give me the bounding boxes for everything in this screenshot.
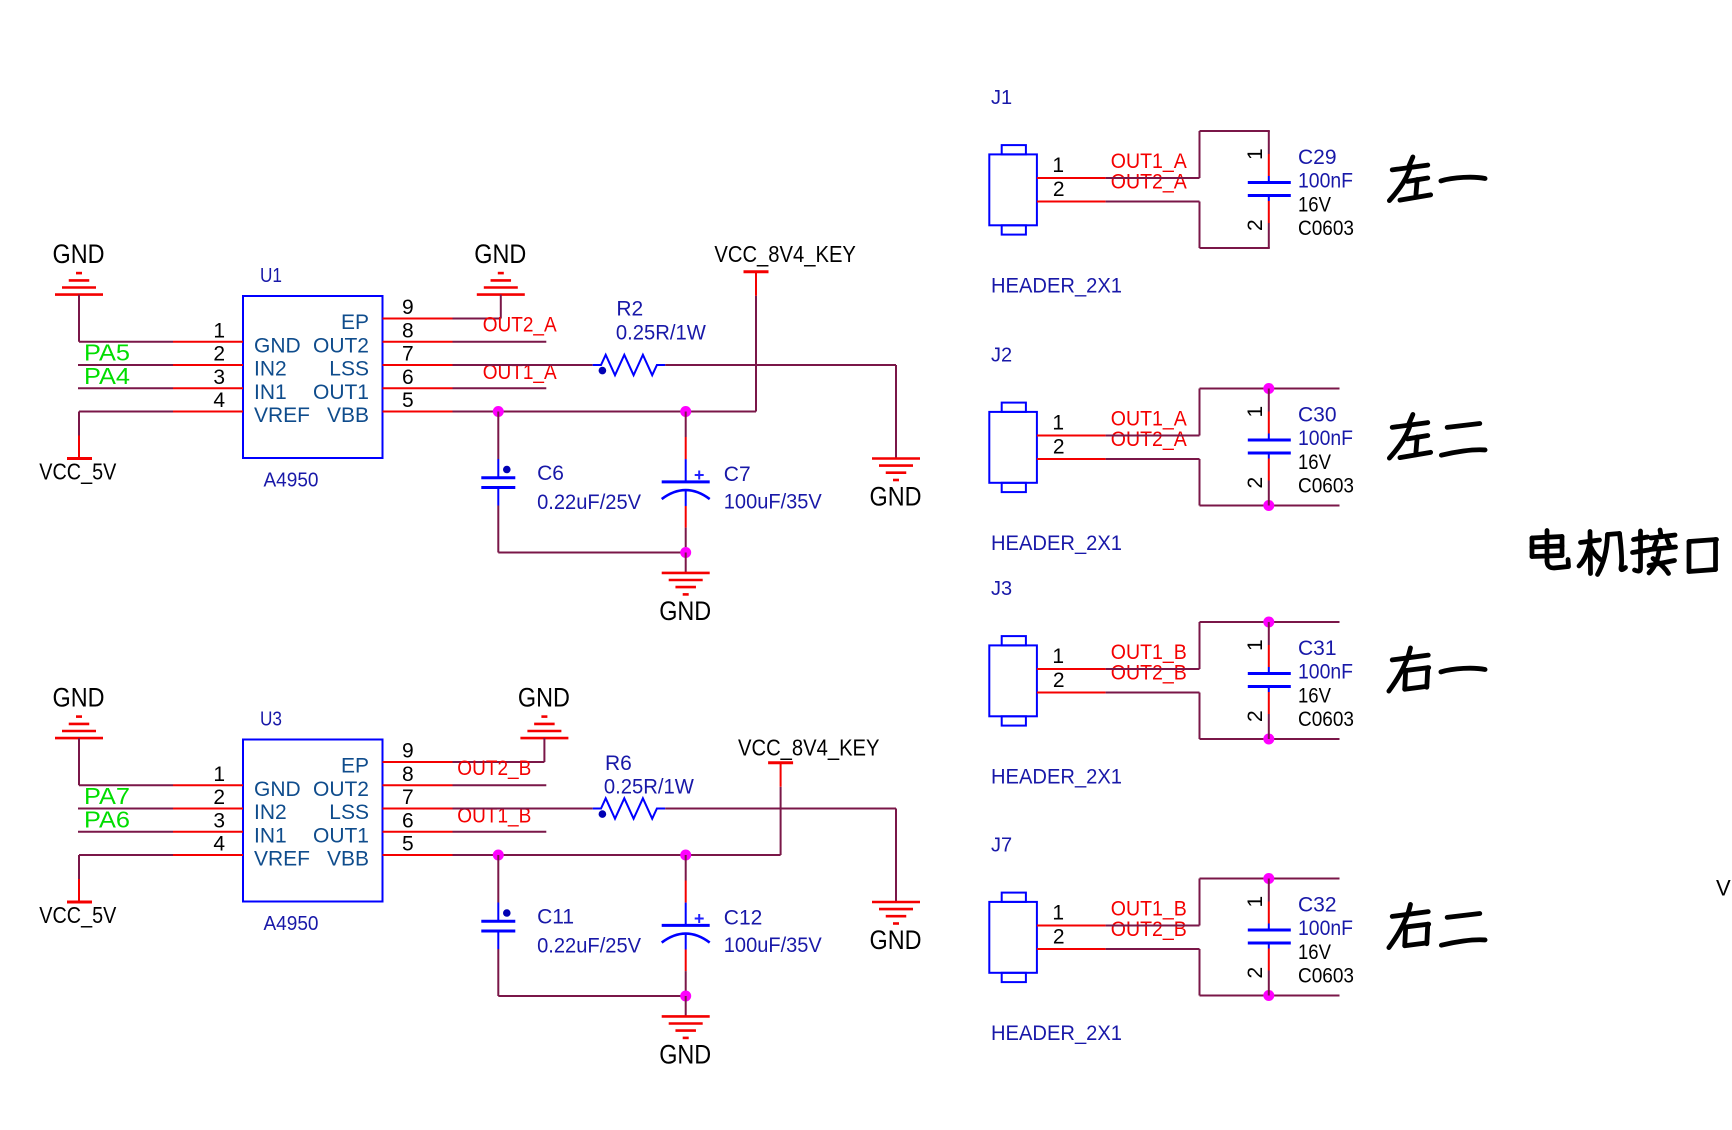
svg-text:2: 2 xyxy=(213,343,225,366)
svg-text:OUT1: OUT1 xyxy=(313,381,369,404)
svg-text:1: 1 xyxy=(1052,902,1064,925)
svg-text:C12: C12 xyxy=(724,907,763,930)
svg-text:4: 4 xyxy=(213,833,225,856)
svg-text:7: 7 xyxy=(402,786,414,809)
svg-text:PA4: PA4 xyxy=(84,363,130,389)
svg-text:A4950: A4950 xyxy=(264,470,319,492)
svg-text:VREF: VREF xyxy=(254,848,310,871)
svg-text:EP: EP xyxy=(341,755,369,778)
svg-text:OUT2_A: OUT2_A xyxy=(1111,170,1187,193)
svg-text:0.22uF/25V: 0.22uF/25V xyxy=(537,491,641,514)
svg-text:GND: GND xyxy=(870,925,922,955)
svg-text:GND: GND xyxy=(53,683,105,713)
svg-text:16V: 16V xyxy=(1298,941,1331,964)
svg-text:PA7: PA7 xyxy=(84,783,130,809)
svg-text:1: 1 xyxy=(1052,154,1064,177)
svg-text:4: 4 xyxy=(213,389,225,412)
svg-text:C0603: C0603 xyxy=(1298,217,1354,240)
svg-text:0.25R/1W: 0.25R/1W xyxy=(616,322,706,345)
svg-text:1: 1 xyxy=(1244,148,1267,160)
svg-text:PA6: PA6 xyxy=(84,806,130,832)
svg-text:GND: GND xyxy=(870,482,922,512)
svg-text:VBB: VBB xyxy=(327,848,369,871)
svg-text:IN2: IN2 xyxy=(254,801,287,824)
svg-text:R6: R6 xyxy=(605,752,632,775)
svg-text:C32: C32 xyxy=(1298,894,1337,917)
svg-text:LSS: LSS xyxy=(329,801,369,824)
svg-text:GND: GND xyxy=(53,239,105,269)
svg-text:OUT2_B: OUT2_B xyxy=(457,757,531,780)
svg-text:2: 2 xyxy=(1053,669,1065,692)
svg-text:HEADER_2X1: HEADER_2X1 xyxy=(991,532,1122,555)
svg-text:A4950: A4950 xyxy=(264,913,319,935)
svg-text:8: 8 xyxy=(402,319,414,342)
svg-text:U3: U3 xyxy=(260,709,282,731)
svg-text:100nF: 100nF xyxy=(1298,661,1353,684)
svg-text:5: 5 xyxy=(402,389,414,412)
svg-text:OUT2_A: OUT2_A xyxy=(1111,428,1187,451)
svg-text:GND: GND xyxy=(518,683,570,713)
svg-text:LSS: LSS xyxy=(329,358,369,381)
svg-text:1: 1 xyxy=(1052,412,1064,435)
svg-text:GND: GND xyxy=(254,334,301,357)
svg-text:1: 1 xyxy=(1244,639,1267,651)
svg-text:1: 1 xyxy=(213,319,225,342)
svg-text:J7: J7 xyxy=(991,835,1012,857)
svg-text:IN1: IN1 xyxy=(254,381,287,404)
svg-text:OUT2: OUT2 xyxy=(313,778,369,801)
svg-text:GND: GND xyxy=(474,239,526,269)
svg-text:OUT2: OUT2 xyxy=(313,334,369,357)
svg-text:16V: 16V xyxy=(1298,451,1331,474)
svg-text:100uF/35V: 100uF/35V xyxy=(724,934,822,957)
svg-text:C29: C29 xyxy=(1298,146,1337,169)
svg-text:C0603: C0603 xyxy=(1298,708,1354,731)
svg-text:HEADER_2X1: HEADER_2X1 xyxy=(991,766,1122,789)
svg-text:0.25R/1W: 0.25R/1W xyxy=(604,776,694,799)
svg-text:OUT2_A: OUT2_A xyxy=(483,314,557,337)
svg-text:J2: J2 xyxy=(991,345,1012,367)
svg-text:VREF: VREF xyxy=(254,404,310,427)
svg-text:9: 9 xyxy=(402,296,414,319)
svg-text:2: 2 xyxy=(1244,219,1267,231)
svg-text:GND: GND xyxy=(659,596,711,626)
svg-text:J1: J1 xyxy=(991,87,1012,109)
svg-text:C6: C6 xyxy=(537,462,564,485)
svg-text:OUT1: OUT1 xyxy=(313,824,369,847)
svg-text:100nF: 100nF xyxy=(1298,170,1353,193)
svg-text:6: 6 xyxy=(402,809,414,832)
svg-text:2: 2 xyxy=(1244,710,1267,722)
svg-text:VCC_8V4_KEY: VCC_8V4_KEY xyxy=(714,241,856,267)
svg-text:100nF: 100nF xyxy=(1298,427,1353,450)
svg-text:8: 8 xyxy=(402,763,414,786)
svg-text:VCC_5V: VCC_5V xyxy=(39,459,117,485)
svg-text:IN2: IN2 xyxy=(254,358,287,381)
svg-text:2: 2 xyxy=(1244,967,1267,979)
svg-text:3: 3 xyxy=(213,366,225,389)
svg-text:U1: U1 xyxy=(260,265,282,287)
svg-text:HEADER_2X1: HEADER_2X1 xyxy=(991,275,1122,298)
svg-text:100uF/35V: 100uF/35V xyxy=(724,491,822,514)
svg-text:1: 1 xyxy=(213,763,225,786)
svg-text:5: 5 xyxy=(402,833,414,856)
svg-text:3: 3 xyxy=(213,809,225,832)
svg-text:C31: C31 xyxy=(1298,637,1337,660)
svg-text:PA5: PA5 xyxy=(84,340,130,366)
svg-text:C0603: C0603 xyxy=(1298,965,1354,988)
svg-text:2: 2 xyxy=(1053,436,1065,459)
svg-text:OUT2_B: OUT2_B xyxy=(1111,661,1187,684)
svg-text:V: V xyxy=(1716,876,1731,901)
svg-text:2: 2 xyxy=(1244,477,1267,489)
svg-text:HEADER_2X1: HEADER_2X1 xyxy=(991,1022,1122,1045)
svg-text:9: 9 xyxy=(402,740,414,763)
svg-text:GND: GND xyxy=(659,1039,711,1069)
svg-text:7: 7 xyxy=(402,343,414,366)
svg-text:C7: C7 xyxy=(724,463,751,486)
svg-text:EP: EP xyxy=(341,311,369,334)
svg-text:C0603: C0603 xyxy=(1298,475,1354,498)
svg-text:C11: C11 xyxy=(537,906,574,929)
svg-text:OUT2_B: OUT2_B xyxy=(1111,918,1187,941)
svg-text:1: 1 xyxy=(1244,406,1267,418)
svg-text:2: 2 xyxy=(1053,926,1065,949)
svg-text:R2: R2 xyxy=(616,298,643,321)
svg-text:2: 2 xyxy=(213,786,225,809)
svg-text:VCC_8V4_KEY: VCC_8V4_KEY xyxy=(738,735,880,761)
svg-text:GND: GND xyxy=(254,778,301,801)
svg-text:IN1: IN1 xyxy=(254,824,287,847)
svg-text:16V: 16V xyxy=(1298,685,1331,708)
svg-text:J3: J3 xyxy=(991,578,1012,600)
svg-text:16V: 16V xyxy=(1298,194,1331,217)
svg-text:VCC_5V: VCC_5V xyxy=(39,902,117,928)
svg-text:1: 1 xyxy=(1052,645,1064,668)
svg-text:6: 6 xyxy=(402,366,414,389)
svg-text:100nF: 100nF xyxy=(1298,917,1353,940)
svg-text:1: 1 xyxy=(1244,896,1267,908)
svg-text:C30: C30 xyxy=(1298,404,1337,427)
svg-text:0.22uF/25V: 0.22uF/25V xyxy=(537,935,641,958)
svg-text:VBB: VBB xyxy=(327,404,369,427)
svg-text:2: 2 xyxy=(1053,178,1065,201)
